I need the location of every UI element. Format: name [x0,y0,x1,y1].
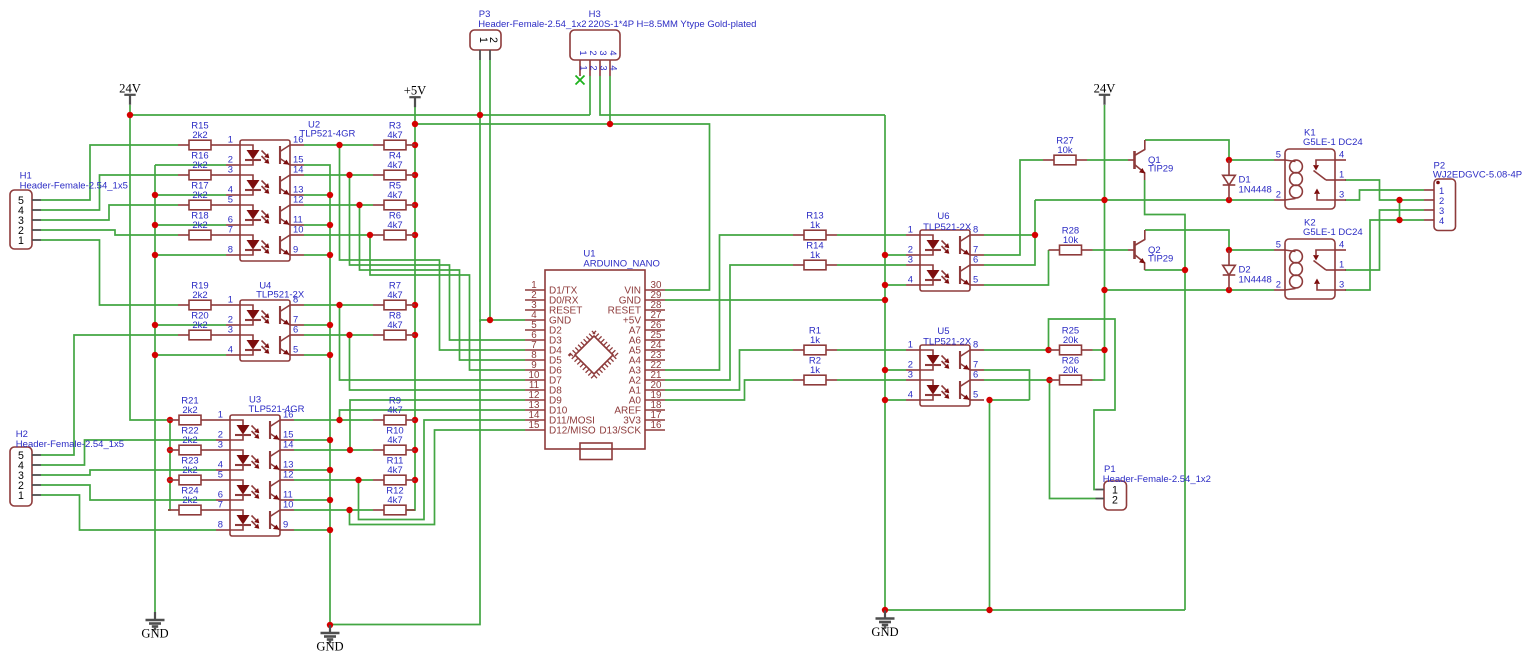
wire H1.4 to R16 [41,175,178,210]
svg-text:4: 4 [1439,215,1444,226]
ground GND3 [871,611,898,640]
junction gbus-4 [882,367,888,373]
U1 MCU diamond graphic [571,332,617,378]
svg-text:5: 5 [1276,239,1281,250]
wire H1.3 to R17 [41,205,178,220]
resistor R9 4k7 [373,395,415,424]
svg-text:3: 3 [1339,279,1344,290]
svg-text:1: 1 [228,294,233,305]
svg-text:4: 4 [1339,239,1344,250]
svg-text:2k2: 2k2 [182,495,197,506]
wire P3 pin2 to GND pin4 [480,60,490,322]
wire U3 pin13 spur [294,469,330,471]
wire Arduino GND pin4 spur [490,319,525,321]
resistor R21 2k2 [168,395,216,424]
svg-text:2: 2 [1112,494,1118,506]
resistor R13 1k [793,210,837,239]
svg-text:3: 3 [599,65,610,70]
svg-text:20k: 20k [1063,365,1079,376]
wire A3 to R13 [665,235,793,370]
svg-text:1: 1 [18,235,24,247]
wire +5V to VIN [415,124,710,290]
junction R8 [412,332,418,338]
wire U2 ch3 tap to D5 [360,205,526,360]
svg-text:1: 1 [1339,169,1344,180]
junction R21 [167,417,173,423]
svg-text:8: 8 [228,244,233,255]
diode D2 1N4448 [1223,250,1272,290]
svg-text:4k7: 4k7 [387,160,402,171]
junction bus330-5 [327,352,333,358]
svg-text:GND: GND [316,640,343,654]
wire K1 coil low spur [1229,199,1274,201]
junction R25L [1045,347,1051,353]
svg-text:TLP521-2X: TLP521-2X [923,337,972,348]
svg-text:TLP521-2X: TLP521-2X [923,222,972,233]
junction U5p5 [986,397,992,403]
svg-text:1: 1 [908,339,913,350]
resistor R4 4k7 [373,150,415,179]
svg-text:2k2: 2k2 [192,320,207,331]
junction gline [986,607,992,613]
svg-text:5: 5 [228,194,233,205]
junction gbus-3 [882,297,888,303]
svg-text:GND: GND [871,625,898,639]
wire 24V-K1 line [1035,199,1229,201]
junction GND4-P3.2 [487,317,493,323]
resistor R10 4k7 [373,425,415,454]
junction R11 [412,477,418,483]
junction bus330-9 [327,527,333,533]
junction U3t2 [347,447,353,453]
junction rail24-290 [1101,287,1107,293]
svg-text:5: 5 [973,274,978,285]
svg-text:1k: 1k [810,250,820,261]
svg-text:2: 2 [589,65,600,70]
junction R23 [167,477,173,483]
wire U2 pin16 to R3 [304,144,373,146]
wire U3 pin12 to R11 [294,479,373,481]
resistor R7 4k7 [373,280,415,309]
svg-text:5: 5 [1276,149,1281,160]
svg-text:3: 3 [228,164,233,175]
svg-text:2: 2 [1276,279,1281,290]
wire U6 pin7 to R27 [984,160,1043,255]
wire R25 to P1.1 [1049,319,1116,490]
svg-text:1k: 1k [810,335,820,346]
wire U2 ch1 tap to D4 [340,145,526,350]
wire U2 pin2 spur [155,164,226,166]
svg-text:2k2: 2k2 [192,220,207,231]
wire U3 pin14 to R10 [294,449,373,451]
svg-text:4k7: 4k7 [387,190,402,201]
relay K1 G5LE-1 DC24 [1274,128,1363,210]
svg-text:12: 12 [293,194,303,205]
junction D1bot [1226,197,1232,203]
junction D1top [1226,157,1232,163]
wire R1 to U5 pin1 [837,349,906,351]
svg-text:15: 15 [529,420,540,431]
wire U4 pin2 spur [155,324,226,326]
no-connect X on H3 pin1 [576,76,585,85]
svg-text:5: 5 [218,469,223,480]
svg-text:4k7: 4k7 [387,495,402,506]
junction bus330-6 [327,437,333,443]
wire U2 pin4 spur [155,194,226,196]
svg-text:8: 8 [973,224,978,235]
wire R25 right spur [1093,349,1105,351]
optocoupler U3 TLP521-4GR [216,395,305,536]
resistor R6 4k7 [373,210,415,239]
svg-text:2: 2 [1276,189,1281,200]
wire K1.1 to P2.2 [1345,180,1424,200]
svg-text:2k2: 2k2 [182,435,197,446]
wire U6 pin8 to 24V line [984,234,1035,236]
svg-text:4k7: 4k7 [387,220,402,231]
junction D2bot [1226,287,1232,293]
wire U2 pin14 to R4 [304,174,373,176]
svg-text:1k: 1k [810,220,820,231]
wire Arduino GND29 wire [665,299,885,301]
wire U3 pin11 spur [294,499,330,501]
wire +5V column [406,105,415,510]
svg-text:2: 2 [487,37,499,43]
junction U2t1 [336,142,342,148]
wire emitter bus to GND2 [304,165,330,625]
U1 USB connector graphic [580,443,612,460]
resistor R3 4k7 [373,120,415,149]
junction R26L [1046,377,1052,383]
svg-text:2k2: 2k2 [192,130,207,141]
svg-text:1: 1 [228,134,233,145]
svg-text:Header-Female-2.54_1x5: Header-Female-2.54_1x5 [16,439,124,450]
resistor R27 10k [1043,135,1087,164]
wire H3 pin4 to +5V line [609,76,611,124]
junction R4 [412,172,418,178]
wire H2.4 to U3 pin2 [41,440,216,465]
junction R9 [412,417,418,423]
svg-text:2k2: 2k2 [192,160,207,171]
wire 24V right rail [1093,105,1105,380]
svg-text:3: 3 [218,439,223,450]
svg-text:7: 7 [228,224,233,235]
svg-text:Header-Female-2.54_1x2: Header-Female-2.54_1x2 [478,19,586,30]
junction gbus-1 [882,252,888,258]
svg-text:WJ2EDGVC-5.08-4P: WJ2EDGVC-5.08-4P [1433,170,1522,181]
svg-text:1N4448: 1N4448 [1239,275,1272,286]
ground GND1 [141,612,168,641]
transistor Q1 TIP29 [1128,140,1173,180]
wire H2.2 to U3 pin6 [41,485,216,500]
svg-text:U5: U5 [937,326,949,337]
svg-text:1: 1 [908,224,913,235]
junction U6p8 [1032,232,1038,238]
connector P3 Header-Female-2.54_1x2 [470,9,587,60]
svg-text:1: 1 [1339,259,1344,270]
connector H1 Header-Female-2.54_1x5 [10,171,128,250]
resistor R26 20k [1049,355,1093,384]
svg-text:24V: 24V [1094,81,1116,95]
wire U3 ch1 tap to D10 [340,410,526,420]
wire U2 ch2 tap to D3 [350,175,526,340]
wire 24V column to R21 bank [130,115,170,420]
wire K2.5 spur [1229,249,1274,251]
junction R10 [412,447,418,453]
wire 24V rail left [130,105,590,115]
wire U3 ch2 tap to D9 [350,400,525,450]
wire K2.3 to P2.4 [1345,220,1424,290]
power +5V flag 5v [404,84,427,108]
junction P2jmp-a [1396,197,1402,203]
junction gbus-2 [882,282,888,288]
wire U4 pin8 to R7 [304,304,373,306]
junction R22 [167,447,173,453]
wire P3 pin1 drop to GND2 line [330,115,480,625]
junction bus155-3 [152,252,158,258]
wire 24V-K2 line [1105,289,1275,291]
junction U3t3 [355,477,361,483]
svg-text:5: 5 [973,389,978,400]
svg-text:4k7: 4k7 [387,320,402,331]
wire H3 pin3 to GND bus [600,76,885,115]
resistor R28 10k [1049,225,1093,254]
junction bus155-1 [152,192,158,198]
junction bus330-7 [327,467,333,473]
svg-text:TIP29: TIP29 [1148,164,1173,175]
svg-text:3: 3 [1339,189,1344,200]
junction bus330-2 [327,222,333,228]
svg-text:3: 3 [228,324,233,335]
junction R6 [412,232,418,238]
svg-text:D12/MISO: D12/MISO [549,426,596,437]
resistor R24 2k2 [168,485,216,514]
wire U3 ch3 tap to D11 [359,420,526,520]
svg-text:3: 3 [598,50,609,55]
svg-text:TLP521-4GR: TLP521-4GR [249,404,305,415]
junction 24V-left [127,112,133,118]
junction U4t2 [346,332,352,338]
svg-text:5: 5 [293,344,298,355]
svg-text:14: 14 [293,164,303,175]
wire H2.5 to R20 [41,335,178,455]
junction R3 [412,142,418,148]
wire GND bus [884,115,886,610]
wire R13 to U6 pin1 [837,234,906,236]
svg-text:4: 4 [228,344,233,355]
wire A2 to R14 [665,265,793,380]
svg-text:4k7: 4k7 [387,130,402,141]
ground GND2 [316,625,343,654]
resistor R15 2k2 [178,120,226,149]
svg-text:6: 6 [973,254,978,265]
wire U4 ch2 tap to D8 [350,335,526,390]
wire P2 common jumper [1399,200,1401,220]
svg-text:220S-1*4P H=8.5MM Ytype Gold-p: 220S-1*4P H=8.5MM Ytype Gold-plated [588,19,756,30]
svg-text:1: 1 [18,490,24,502]
wire U2 pin10 to R6 [304,234,373,236]
wire K2.1 to P2.3 [1345,210,1424,270]
svg-text:1: 1 [579,65,590,70]
wire U2 pin11 spur [304,224,330,226]
svg-text:2k2: 2k2 [182,465,197,476]
svg-text:4: 4 [908,274,913,285]
resistor R12 4k7 [373,485,415,514]
wire K1.5 spur [1229,159,1274,161]
junction U3t4 [346,507,352,513]
svg-text:TIP29: TIP29 [1148,254,1173,265]
wire U2 pin8 spur [155,254,226,256]
junction R5 [412,202,418,208]
svg-text:GND: GND [141,627,168,641]
wire H2.1 to U3 pin8 [41,495,216,530]
resistor R11 4k7 [373,455,415,484]
resistor R5 4k7 [373,180,415,209]
wire U3 ch4 tap to D12 [350,430,526,525]
wire U4 pin7 spur [304,324,330,326]
resistor R8 4k7 [373,310,415,339]
svg-text:Header-Female-2.54_1x5: Header-Female-2.54_1x5 [20,181,128,192]
svg-text:10: 10 [293,224,303,235]
junction bus330-1 [327,192,333,198]
svg-text:9: 9 [293,244,298,255]
svg-text:3: 3 [908,254,913,265]
svg-text:G5LE-1 DC24: G5LE-1 DC24 [1303,227,1363,238]
resistor R19 2k2 [178,280,226,309]
wire U3 pin9 spur [294,529,330,531]
wire A1 to R1 [665,350,793,390]
connector P1 Header-Female-2.54_1x2 [1096,464,1211,510]
wire H1.5 to R15 [41,145,178,200]
junction R7 [412,302,418,308]
svg-text:1k: 1k [810,365,820,376]
junction P2jmp-b [1396,217,1402,223]
diode D1 1N4448 [1223,160,1272,200]
power 24V flag right [1094,81,1116,105]
svg-text:4k7: 4k7 [387,290,402,301]
wire U3 pin16 to R9 [294,419,373,421]
junction bus330-8 [327,497,333,503]
junction U2t4 [367,232,373,238]
wire Q2 emitter spur [1145,269,1185,271]
svg-text:9: 9 [283,519,288,530]
wire U6 pin6 up [984,200,1035,265]
wire P3 pin1 to 24V rail [479,60,481,115]
svg-text:TLP521-4GR: TLP521-4GR [299,128,355,139]
junction bus155-5 [152,352,158,358]
junction rail-P3.1 [477,112,483,118]
junction Q2e [1182,267,1188,273]
resistor R2 1k [793,355,837,384]
resistor R25 20k [1049,325,1093,354]
svg-text:2k2: 2k2 [192,290,207,301]
svg-text:ARDUINO_NANO: ARDUINO_NANO [583,259,660,270]
power 24V flag left [119,81,141,105]
wire U2/U4 cathode bus [154,165,156,612]
junction D2top [1226,247,1232,253]
junction bus155-4 [152,322,158,328]
wire U4 ch1 tap to D7 [340,305,526,380]
svg-text:U6: U6 [937,211,949,222]
svg-text:3: 3 [908,369,913,380]
wire Q1 collector to K1.5 [1145,140,1229,160]
resistor R17 2k2 [178,180,226,209]
svg-text:8: 8 [218,519,223,530]
wire U5 pin5 to GND line [990,399,1030,401]
wire K1.3 to P2.1 [1345,190,1424,200]
svg-text:1N4448: 1N4448 [1239,185,1272,196]
wire Q2 collector to K2.5 [1145,230,1229,250]
svg-text:+5V: +5V [404,84,427,98]
svg-text:2k2: 2k2 [192,190,207,201]
svg-text:12: 12 [283,469,293,480]
junction gbus-6 [882,607,888,613]
resistor R16 2k2 [178,150,226,179]
wire U4 pin5 spur [304,354,330,356]
resistor R14 1k [793,240,837,269]
svg-text:D13/SCK: D13/SCK [599,426,641,437]
wire U3 pin10 to R12 [294,509,373,511]
svg-text:4k7: 4k7 [387,435,402,446]
junction U3t1 [336,417,342,423]
wire R26 to P1.2 [1050,380,1096,499]
ic U1 ARDUINO_NANO [525,249,665,450]
junction rail24-200 [1101,197,1107,203]
wire U2 pin12 to R5 [304,204,373,206]
wire H1.2 to R18 [41,230,178,235]
svg-text:16: 16 [651,420,662,431]
wire U6 pin4 spur [885,284,906,286]
connector P2 WJ2EDGVC-5.08-4P [1424,161,1522,231]
optocoupler U6 TLP521-2X [906,211,984,291]
junction bus330-3 [327,252,333,258]
svg-text:2: 2 [588,50,599,55]
wire U5 pin2 spur [885,369,906,371]
svg-text:6: 6 [293,324,298,335]
svg-text:24V: 24V [119,81,141,95]
wire H1.1 to R19 [41,240,178,305]
svg-text:2k2: 2k2 [182,405,197,416]
connector H2 Header-Female-2.54_1x5 [10,429,124,506]
wire U5 pin7 parallel [984,370,1030,400]
junction U4t1 [336,302,342,308]
svg-text:4: 4 [908,389,913,400]
svg-text:1: 1 [578,50,589,55]
wire Q1 emitter to GND [1145,180,1185,610]
junction U2t2 [346,172,352,178]
svg-text:14: 14 [283,439,293,450]
wire U2 ch4 tap to D6 [370,235,525,370]
svg-text:1: 1 [218,409,223,420]
svg-text:TLP521-2X: TLP521-2X [256,290,305,301]
wire R27 to Q1 base [1087,159,1128,161]
svg-text:4: 4 [608,50,619,55]
junction bus155-2 [152,222,158,228]
svg-text:Header-Female-2.54_1x2: Header-Female-2.54_1x2 [1103,474,1211,485]
resistor R18 2k2 [178,210,226,239]
wire R2 to U5 pin3 [837,379,906,381]
svg-text:7: 7 [218,499,223,510]
optocoupler U5 TLP521-2X [906,326,984,406]
junction U2t3 [356,202,362,208]
resistor R23 2k2 [168,455,216,484]
junction gbus-5 [882,397,888,403]
wire U5 pin8 to R25 [984,349,1049,351]
wire R28 to Q2 base [1093,249,1129,251]
wire U5 pin5 drop [989,400,991,610]
relay K2 G5LE-1 DC24 [1274,218,1363,300]
transistor Q2 TIP29 [1128,230,1173,270]
wire bottom GND line [885,609,1185,611]
